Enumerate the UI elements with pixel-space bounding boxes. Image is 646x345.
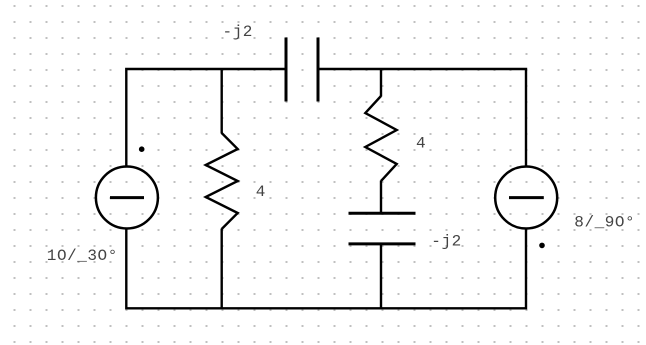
svg-text:-j2: -j2 bbox=[223, 23, 253, 41]
wire branch1 top bbox=[220, 69, 222, 134]
svg-text:8/_9O°: 8/_9O° bbox=[574, 213, 635, 231]
source V1 inner bar bbox=[110, 196, 144, 199]
wire bottom with left and right lower wires bbox=[126, 228, 526, 308]
wire branch2 bottom bbox=[380, 244, 382, 308]
capacitor C1 -j2 (top) plates bbox=[286, 38, 318, 102]
svg-text:-j2: -j2 bbox=[431, 232, 461, 250]
wire top-right segment and right upper wire bbox=[318, 69, 526, 167]
source V1 10/_30 circle bbox=[96, 167, 158, 229]
capacitor C2 -j2 (right branch) plates bbox=[349, 213, 416, 244]
wire branch2 top bbox=[380, 69, 382, 97]
polarity dot near V2 bbox=[539, 243, 545, 249]
resistor R1 4 (left) zigzag bbox=[206, 133, 238, 229]
source V2 8/_90 circle bbox=[495, 167, 557, 229]
wire branch2 middle bbox=[380, 181, 382, 214]
svg-text:1O/_3O°: 1O/_3O° bbox=[47, 247, 118, 265]
wire top-left segment and left upper wire bbox=[126, 69, 286, 167]
source V2 inner bar bbox=[509, 196, 544, 199]
svg-text:4: 4 bbox=[256, 183, 266, 201]
wire branch1 bottom bbox=[220, 229, 222, 309]
resistor R2 4 (right) zigzag bbox=[365, 96, 396, 181]
polarity dot near V1 bbox=[139, 146, 145, 152]
svg-text:4: 4 bbox=[416, 134, 426, 152]
